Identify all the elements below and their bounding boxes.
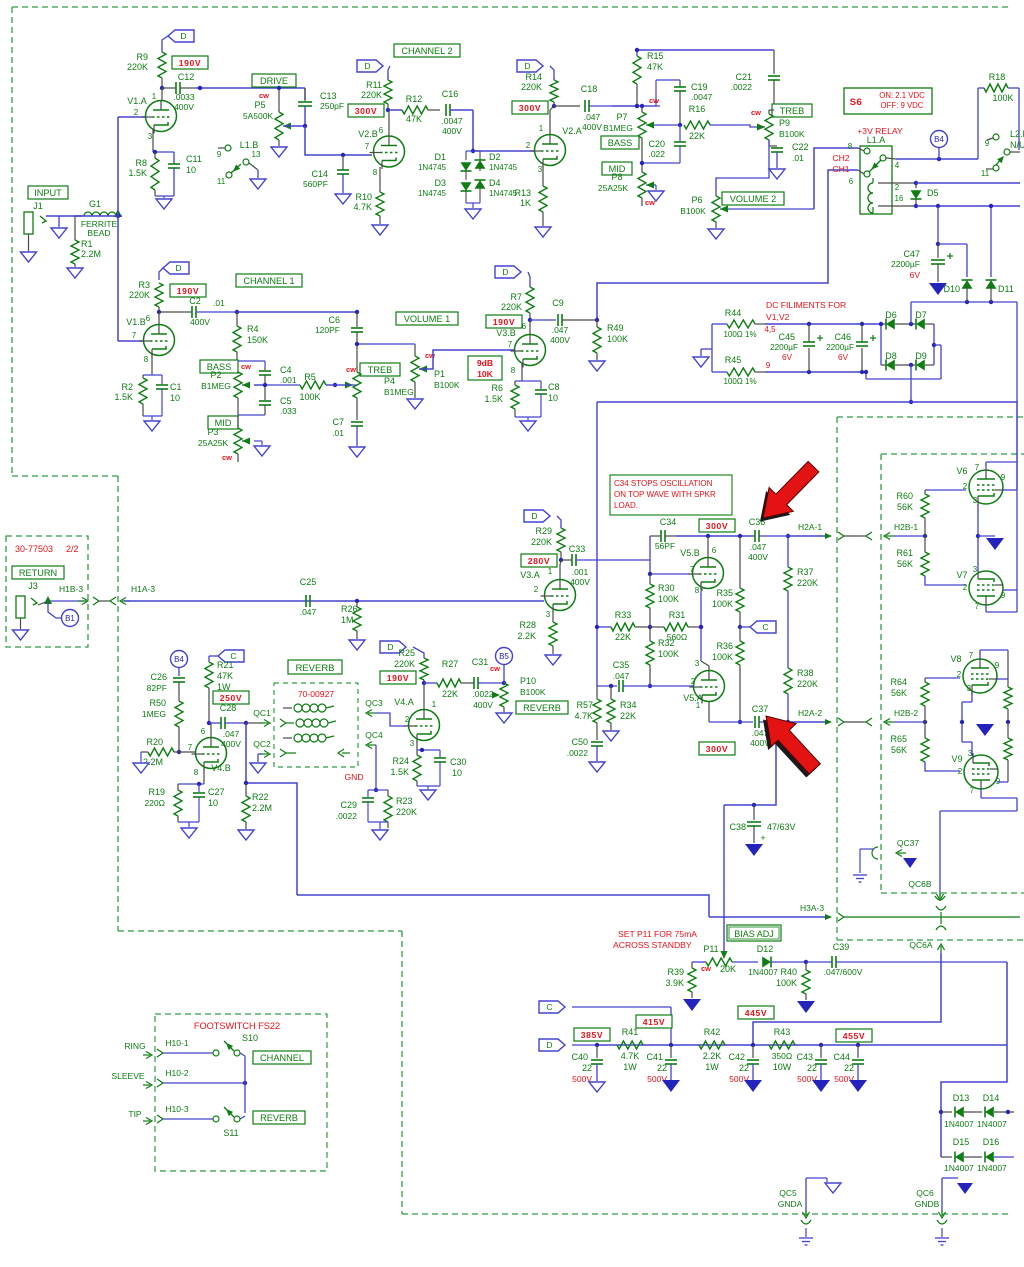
svg-text:D14: D14 (983, 1093, 1000, 1103)
svg-text:CHANNEL 2: CHANNEL 2 (401, 46, 452, 56)
svg-text:C20: C20 (648, 139, 665, 149)
svg-text:9: 9 (1001, 473, 1006, 482)
svg-text:.0022: .0022 (567, 748, 589, 758)
svg-text:QC5: QC5 (779, 1188, 797, 1198)
svg-text:220K: 220K (129, 290, 150, 300)
net flag D (V4.A) (380, 641, 406, 653)
svg-text:2: 2 (526, 141, 531, 150)
wire (C12 to DRIVE node) (196, 87, 305, 89)
outer enclosure dashed border left (11, 7, 13, 476)
svg-text:R42: R42 (704, 1027, 721, 1037)
svg-text:.01: .01 (213, 298, 225, 308)
svg-text:11: 11 (217, 177, 226, 186)
svg-text:2: 2 (895, 183, 900, 192)
svg-text:R9: R9 (136, 52, 148, 62)
svg-text:190V: 190V (493, 317, 515, 327)
screen resistor (V8) (997, 678, 1008, 680)
svg-text:DRIVE: DRIVE (260, 76, 288, 86)
ground (V1.B cathode) (143, 415, 162, 417)
ground (C7) (349, 447, 365, 457)
wire (C13 node to C14/V2.B grid) (305, 126, 372, 155)
svg-text:H2B-1: H2B-1 (894, 522, 918, 532)
svg-text:cw: cw (259, 91, 269, 100)
svg-text:.001: .001 (280, 375, 297, 385)
INPUT label (28, 186, 68, 199)
svg-text:82PF: 82PF (147, 683, 167, 693)
svg-text:10: 10 (186, 165, 196, 175)
connector QC6 plug (941, 1210, 943, 1216)
svg-text:D13: D13 (953, 1093, 970, 1103)
triode V2.B (374, 136, 405, 167)
svg-text:R57: R57 (576, 700, 593, 710)
svg-text:100Ω 1%: 100Ω 1% (723, 330, 756, 339)
svg-text:G1: G1 (89, 199, 101, 209)
wire (R5 to P4 wiper) (326, 384, 353, 386)
voltage label 280V (521, 554, 557, 567)
svg-text:100K: 100K (607, 334, 628, 344)
wire CH2 (P6 wiper to relay) (814, 148, 858, 209)
S6 note box (844, 88, 932, 114)
svg-text:S11: S11 (223, 1128, 238, 1138)
MID label (ch1) (208, 416, 238, 429)
svg-text:D11: D11 (998, 284, 1014, 294)
screen resistor (V9) (1004, 738, 1012, 760)
svg-text:L2.B: L2.B (1010, 129, 1024, 139)
wire H3A-3 (709, 916, 826, 918)
triode V3.A (545, 580, 576, 611)
reverb tank coil 1 (283, 707, 292, 709)
svg-text:1N4745: 1N4745 (489, 163, 518, 172)
wire (feedback drop) (596, 402, 598, 427)
net bubble B5 (496, 648, 513, 665)
svg-text:56K: 56K (897, 559, 913, 569)
svg-text:1: 1 (152, 92, 157, 101)
svg-text:V1.A: V1.A (127, 96, 147, 106)
svg-text:10K: 10K (477, 369, 494, 379)
wire (V6 screen) (1003, 489, 1017, 491)
svg-text:1N4007: 1N4007 (748, 967, 778, 977)
wire (QC1 lead) (246, 722, 262, 724)
reverb tank coil 3 (283, 737, 292, 739)
svg-text:8: 8 (511, 366, 516, 375)
svg-text:25A25K: 25A25K (198, 438, 229, 448)
svg-text:2: 2 (691, 677, 696, 686)
svg-text:R11: R11 (366, 80, 382, 90)
svg-text:300V: 300V (706, 521, 728, 531)
svg-text:400V: 400V (748, 552, 768, 562)
earth ground (QC6) (935, 1237, 949, 1239)
svg-text:R32: R32 (658, 638, 675, 648)
earth ground (QC37) (853, 874, 867, 876)
svg-text:C13: C13 (320, 91, 337, 101)
svg-text:.047: .047 (300, 607, 317, 617)
wire (relay coil pins) (878, 182, 916, 184)
wire (relay pin4 to B4) (896, 158, 978, 160)
net bubble B1 (62, 610, 79, 627)
pentode V9 (964, 755, 998, 789)
svg-text:2.2M: 2.2M (81, 249, 101, 259)
svg-text:400V: 400V (174, 102, 194, 112)
wire (V5.A plate to C37) (708, 702, 710, 723)
svg-text:8: 8 (848, 142, 853, 151)
svg-text:2: 2 (534, 585, 539, 594)
svg-text:D10: D10 (943, 284, 960, 294)
svg-text:R36: R36 (716, 641, 733, 651)
svg-text:D: D (387, 642, 393, 652)
C34 note box (610, 475, 732, 515)
triode V5.B (693, 558, 724, 589)
svg-text:5A500K: 5A500K (243, 111, 274, 121)
svg-text:3: 3 (538, 165, 543, 174)
net flag C (R21) (218, 650, 244, 662)
triode V1.B (144, 325, 175, 356)
wire (plate rail top) (637, 49, 774, 51)
svg-text:C43: C43 (796, 1052, 813, 1062)
svg-text:445V: 445V (745, 1008, 767, 1018)
svg-text:B1: B1 (65, 614, 75, 623)
svg-text:.0047: .0047 (441, 116, 463, 126)
wire (reverb return to bias) (297, 895, 709, 917)
wire (C2 to tone) (237, 311, 357, 313)
svg-text:B4: B4 (174, 655, 184, 664)
svg-text:QC1: QC1 (253, 708, 271, 718)
svg-text:S6: S6 (850, 97, 863, 108)
svg-text:7: 7 (690, 565, 695, 574)
svg-text:10: 10 (208, 798, 218, 808)
svg-text:7: 7 (508, 340, 513, 349)
voltage label 250V (213, 691, 249, 704)
voltage label 415V (636, 1015, 672, 1028)
connector (H2A-2 crossing) (838, 718, 844, 726)
wire (P5 wiper to C13 node) (283, 125, 305, 127)
wire H1A-3 (124, 600, 544, 602)
svg-text:B100K: B100K (779, 129, 805, 139)
voltage label 300V (V2.A) (512, 101, 548, 114)
svg-text:6V: 6V (838, 353, 849, 362)
ground (R22) (238, 830, 254, 840)
ground (R34) (603, 731, 619, 741)
svg-text:R23: R23 (396, 796, 413, 806)
svg-text:B100K: B100K (434, 380, 460, 390)
svg-text:7: 7 (132, 331, 137, 340)
TREB label (772, 104, 812, 117)
ground (V1.A cathode) (155, 195, 174, 197)
svg-text:100K: 100K (658, 649, 679, 659)
svg-text:CH2: CH2 (832, 153, 849, 163)
svg-text:V3.B: V3.B (496, 328, 516, 338)
net flag C (PI) (750, 621, 776, 633)
svg-text:220K: 220K (127, 62, 148, 72)
svg-text:56K: 56K (891, 745, 907, 755)
svg-text:V2.B: V2.B (358, 129, 378, 139)
svg-text:H10-3: H10-3 (165, 1104, 188, 1114)
svg-text:BASS: BASS (608, 138, 633, 148)
ground (C40) (589, 1082, 605, 1092)
svg-text:300V: 300V (355, 106, 377, 116)
svg-text:B4: B4 (934, 135, 944, 144)
DRIVE label (252, 74, 296, 87)
wire (R15 bottom bus) (637, 105, 660, 107)
svg-text:FOOTSWITCH FS22: FOOTSWITCH FS22 (194, 1021, 280, 1031)
REVERB label (footswitch) (253, 1111, 305, 1124)
svg-text:C30: C30 (450, 757, 467, 767)
svg-text:C19: C19 (691, 82, 708, 92)
svg-text:C: C (546, 1002, 552, 1012)
CHANNEL 1 label (236, 274, 302, 287)
svg-text:R14: R14 (525, 72, 542, 82)
svg-text:RING: RING (124, 1041, 145, 1051)
svg-text:C50: C50 (571, 737, 588, 747)
svg-text:D: D (546, 1040, 552, 1050)
svg-text:L1.A: L1.A (867, 135, 886, 145)
svg-text:V1,V2: V1,V2 (766, 312, 790, 322)
svg-text:B5: B5 (499, 652, 509, 661)
ground (V4.B cathode) (178, 821, 199, 823)
svg-text:R12: R12 (406, 94, 423, 104)
svg-text:.047/600V: .047/600V (824, 967, 863, 977)
wire (plate node to R12) (388, 109, 402, 111)
svg-text:R49: R49 (607, 323, 624, 333)
svg-text:25A25K: 25A25K (598, 183, 629, 193)
svg-text:P10: P10 (520, 676, 536, 686)
relay contacts (864, 148, 870, 154)
svg-text:C35: C35 (613, 660, 630, 670)
svg-text:B1MEG: B1MEG (201, 381, 231, 391)
svg-text:R18: R18 (989, 72, 1006, 82)
svg-text:.0022: .0022 (336, 811, 358, 821)
cathode network V4.B (203, 768, 205, 784)
wire (output return) (940, 810, 1017, 812)
svg-text:R19: R19 (148, 787, 165, 797)
svg-text:56K: 56K (897, 502, 913, 512)
svg-text:2200µF: 2200µF (826, 343, 854, 352)
svg-text:1N4745: 1N4745 (418, 189, 447, 198)
wire H2A-1 (788, 535, 826, 537)
svg-text:C4: C4 (280, 365, 292, 375)
svg-text:GNDA: GNDA (778, 1199, 803, 1209)
wire (V8 plate) (979, 650, 981, 659)
node (V1.A plate) (160, 86, 164, 90)
wire (heater rail right) (1016, 302, 1018, 402)
voltage label 190V (172, 56, 208, 69)
svg-text:C38: C38 (729, 822, 746, 832)
svg-text:P6: P6 (691, 195, 702, 205)
svg-text:VOLUME 2: VOLUME 2 (730, 194, 776, 204)
svg-text:9: 9 (766, 361, 771, 370)
svg-text:D9: D9 (915, 351, 927, 361)
svg-text:6V: 6V (910, 270, 921, 280)
wire (P11 wiper) (723, 950, 725, 952)
svg-text:.047: .047 (750, 542, 767, 552)
svg-text:V8: V8 (950, 654, 961, 664)
voltage label 300V (348, 104, 384, 117)
wire (DRIVE node down) (304, 88, 306, 100)
svg-text:1W: 1W (705, 1062, 719, 1072)
svg-text:1N4007: 1N4007 (944, 1119, 974, 1129)
svg-text:R3: R3 (138, 280, 150, 290)
svg-text:R60: R60 (896, 491, 913, 501)
svg-text:R2: R2 (121, 382, 133, 392)
svg-text:cw: cw (701, 964, 711, 973)
svg-text:B1MEG: B1MEG (603, 123, 633, 133)
svg-text:V1.B: V1.B (126, 317, 146, 327)
svg-text:R21: R21 (217, 660, 234, 670)
svg-text:D8: D8 (885, 351, 897, 361)
svg-text:cw: cw (490, 664, 500, 673)
svg-text:1.5K: 1.5K (128, 168, 147, 178)
ground (J3) (20, 618, 22, 629)
svg-text:C33: C33 (569, 544, 586, 554)
ground (filament) (711, 324, 713, 372)
svg-text:R30: R30 (658, 583, 675, 593)
svg-text:3: 3 (410, 739, 415, 748)
net bubble B4 (reverb) (171, 651, 188, 668)
cathode network V1.A (152, 130, 154, 152)
svg-text:.001: .001 (572, 567, 589, 577)
svg-text:H10-2: H10-2 (165, 1068, 188, 1078)
ground (R49) (589, 361, 605, 371)
svg-text:22: 22 (582, 1063, 592, 1073)
svg-text:QC3: QC3 (365, 698, 383, 708)
svg-text:R34: R34 (620, 700, 637, 710)
connector (H2A-1 crossing) (838, 532, 844, 540)
svg-text:D12: D12 (757, 944, 774, 954)
svg-text:QC6B: QC6B (908, 879, 931, 889)
ground (V4.A cathode) (417, 785, 440, 787)
svg-text:V5.B: V5.B (680, 548, 700, 558)
connector (H3A-3 crossing) (838, 913, 844, 921)
svg-text:1.5K: 1.5K (114, 392, 133, 402)
svg-text:400V: 400V (582, 122, 602, 132)
earth ground (QC5) (799, 1237, 813, 1239)
switch L2.B (1008, 87, 1019, 89)
svg-text:R35: R35 (716, 588, 733, 598)
svg-text:OFF: 9 VDC: OFF: 9 VDC (881, 101, 924, 110)
svg-text:B100K: B100K (520, 687, 546, 697)
svg-text:10: 10 (170, 393, 180, 403)
voltage label 9dB 10K (468, 356, 502, 380)
svg-text:9: 9 (217, 150, 222, 159)
svg-text:47K: 47K (217, 671, 233, 681)
ground (C43) (812, 1080, 830, 1092)
svg-text:385V: 385V (581, 1030, 603, 1040)
pentode V7 (969, 571, 1003, 605)
svg-text:R31: R31 (669, 610, 686, 620)
svg-text:C34 STOPS OSCILLATION: C34 STOPS OSCILLATION (614, 479, 713, 488)
svg-text:190V: 190V (387, 673, 409, 683)
node (V3.A plate) (559, 558, 563, 562)
svg-text:22K: 22K (620, 711, 636, 721)
ground (V8 V9 cathodes) (976, 724, 994, 736)
svg-text:220K: 220K (501, 302, 522, 312)
wire (C47 branch) (937, 206, 939, 244)
svg-text:R13: R13 (514, 188, 531, 198)
svg-text:cw: cw (645, 198, 655, 207)
wire (V9 plate bottom) (980, 789, 982, 798)
svg-text:100K: 100K (299, 392, 320, 402)
svg-text:.047: .047 (223, 729, 240, 739)
svg-text:3: 3 (695, 659, 700, 668)
svg-text:C44: C44 (833, 1052, 850, 1062)
svg-text:1W: 1W (623, 1062, 637, 1072)
svg-text:R38: R38 (797, 668, 814, 678)
svg-text:220K: 220K (521, 82, 542, 92)
relay coil (868, 183, 873, 193)
svg-text:R1: R1 (81, 239, 93, 249)
svg-text:560PF: 560PF (303, 179, 328, 189)
pentode V6 (969, 470, 1003, 504)
svg-text:V2.A: V2.A (562, 126, 582, 136)
svg-text:B1MEG: B1MEG (384, 387, 414, 397)
svg-text:P4: P4 (384, 376, 395, 386)
svg-text:C12: C12 (178, 72, 195, 82)
svg-text:.047: .047 (552, 325, 569, 335)
svg-text:6: 6 (146, 314, 151, 323)
svg-text:cw: cw (649, 96, 659, 105)
svg-text:7: 7 (188, 743, 193, 752)
svg-text:C8: C8 (548, 382, 560, 392)
svg-text:8: 8 (144, 355, 149, 364)
svg-text:CHANNEL: CHANNEL (260, 1053, 304, 1063)
svg-text:C34: C34 (660, 517, 677, 527)
reverb tank output fork (280, 749, 286, 757)
reverb tank coil 2 (280, 719, 286, 727)
svg-text:V4.B: V4.B (211, 763, 231, 773)
svg-text:R20: R20 (146, 737, 163, 747)
svg-text:1.5K: 1.5K (390, 767, 409, 777)
power tube section dashed border (881, 453, 1024, 455)
ground (C50) (589, 762, 605, 772)
svg-text:C29: C29 (340, 800, 357, 810)
svg-text:4.7K: 4.7K (621, 1051, 640, 1061)
svg-text:QC6: QC6 (916, 1188, 934, 1198)
svg-text:1N4745: 1N4745 (489, 189, 518, 198)
svg-text:220Ω: 220Ω (144, 798, 165, 808)
svg-text:P8: P8 (611, 172, 622, 182)
svg-text:H2B-2: H2B-2 (894, 708, 918, 718)
svg-text:D: D (524, 61, 530, 71)
svg-text:H2A-2: H2A-2 (798, 708, 822, 718)
svg-text:415V: 415V (643, 1017, 665, 1027)
svg-text:250pF: 250pF (320, 101, 344, 111)
svg-text:P5: P5 (254, 100, 265, 110)
svg-text:REVERB: REVERB (523, 703, 561, 713)
ground (L1.B) (257, 170, 259, 178)
ground (R40) (797, 1001, 815, 1013)
svg-text:ACROSS STANDBY: ACROSS STANDBY (613, 940, 692, 950)
svg-text:220K: 220K (361, 90, 382, 100)
svg-text:R39: R39 (667, 967, 684, 977)
ground (C38) (745, 844, 763, 856)
voltage label 300V (V5.A) (699, 742, 735, 755)
svg-text:.0022: .0022 (731, 82, 753, 92)
svg-text:C22: C22 (792, 142, 809, 152)
svg-text:4,5: 4,5 (764, 325, 776, 334)
connector QC5 plug (805, 1210, 807, 1216)
svg-text:C11: C11 (186, 154, 202, 164)
voltage label 190V (ch1) (170, 284, 206, 297)
ground (V6 V7 cathodes) (986, 538, 1004, 550)
svg-text:R7: R7 (510, 292, 522, 302)
net flag D (V3.A plate) (524, 510, 550, 522)
svg-text:190V: 190V (177, 286, 199, 296)
svg-text:R24: R24 (392, 756, 409, 766)
svg-text:2: 2 (958, 767, 963, 776)
svg-text:C26: C26 (150, 672, 167, 682)
svg-text:+: + (760, 833, 765, 843)
svg-text:CHANNEL 1: CHANNEL 1 (243, 276, 294, 286)
svg-text:R27: R27 (442, 659, 459, 669)
